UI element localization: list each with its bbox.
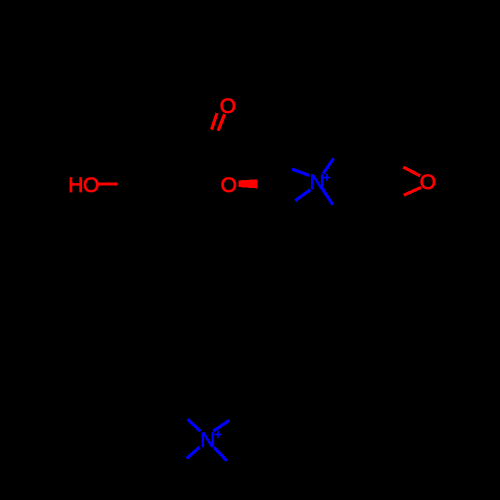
svg-text:+: + <box>214 428 221 442</box>
chain bond C18-N2 blue half <box>213 421 229 432</box>
svg-text:O: O <box>221 174 237 197</box>
methyl bond N2-C21 blue half <box>214 447 227 461</box>
methyl bond N2-C20 black half <box>166 458 186 477</box>
wedge bond O(ester)-C8 red half <box>239 179 258 188</box>
alkyl chain bonds C6 to C18 (black) <box>146 184 251 402</box>
bond C1-C6 (cyclopentyl to quaternary carbon) <box>123 143 146 184</box>
methyl bond N2-C19 black half <box>168 399 188 419</box>
bond C6-C7 (to carbonyl carbon) <box>146 156 208 184</box>
epoxide bond C13-O black half <box>388 159 403 167</box>
ring bond N-C11 blue half <box>323 158 333 173</box>
azetidinium ring bonds C8-C9 and C8-C10 (black) <box>268 157 286 220</box>
ring bond C9-N black half <box>268 157 292 170</box>
epoxide bond C13-C14 (black) <box>386 159 389 202</box>
methyl bond N2-C21 black half <box>227 461 247 483</box>
svg-text:O: O <box>420 171 436 194</box>
epoxide bond C13-O red half <box>403 167 420 176</box>
ring bond N-C12 black half <box>333 205 349 228</box>
svg-text:HO: HO <box>68 174 99 197</box>
bond O(H)-C6 red half <box>98 182 118 185</box>
atom label N+ (spiro quaternary nitrogen) <box>310 171 331 194</box>
methyl bond N2-C19 blue half <box>188 419 201 431</box>
carbonyl C7=O double bond black halves <box>203 130 218 156</box>
bond C7-O(ester) black <box>208 156 222 174</box>
ring bond N-C11 black half <box>334 135 351 158</box>
svg-text:N: N <box>200 429 215 452</box>
chain bond C18-N2 black half <box>229 402 251 421</box>
methyl bond N2-C20 blue half <box>187 447 200 458</box>
atom label N+ (trimethylammonium nitrogen) <box>200 428 221 452</box>
carbonyl C7=O double bond red halves <box>212 113 225 131</box>
ring bond C10-N blue half <box>295 190 310 201</box>
ring bond C9-N blue half <box>292 169 310 175</box>
oxolane ring bonds C11-C13 and C12-C14 (black) <box>349 135 388 228</box>
wedge bond O(ester)-C8 black half <box>258 177 287 189</box>
epoxide bond C14-O red half <box>404 188 421 196</box>
epoxide bond C14-O black half <box>388 195 404 202</box>
ring bond N-C12 blue half <box>322 189 332 205</box>
cyclopentane ring (black skeleton, C1-C5) <box>50 46 148 143</box>
bond O(H)-C6 black half <box>117 182 145 185</box>
svg-text:O: O <box>220 95 236 118</box>
ring bond C10-N black half <box>274 201 295 220</box>
